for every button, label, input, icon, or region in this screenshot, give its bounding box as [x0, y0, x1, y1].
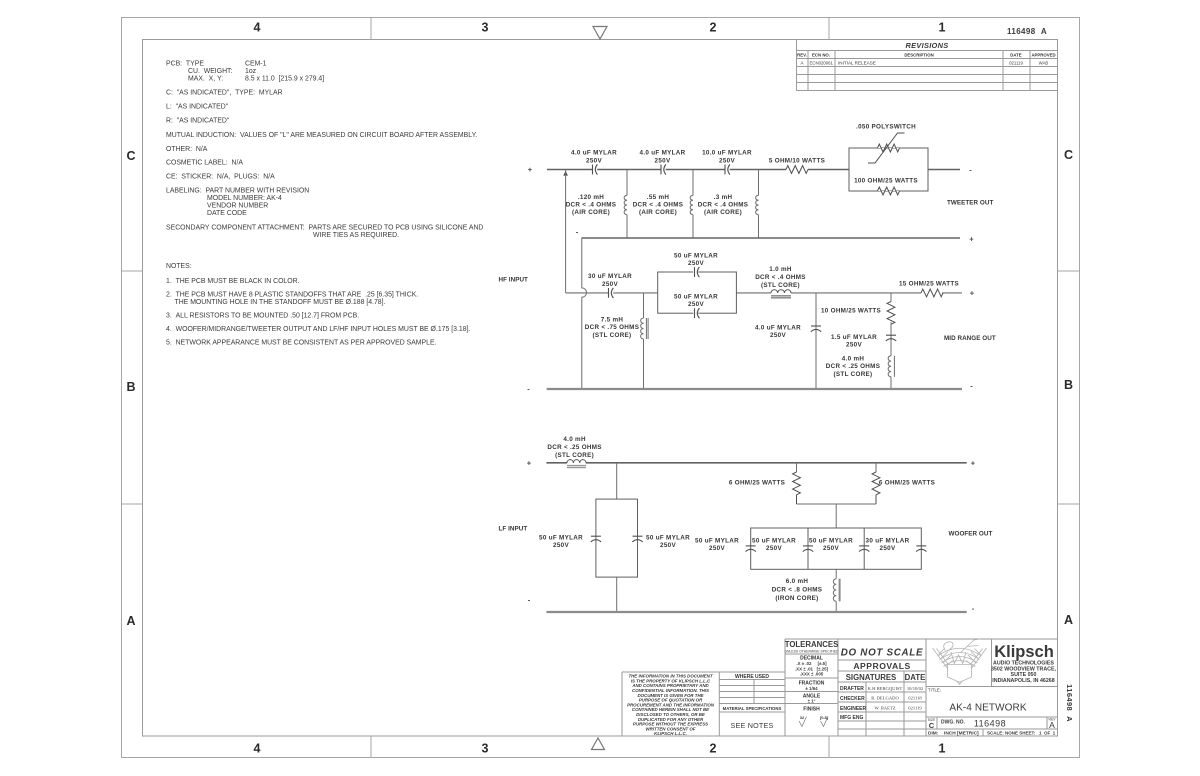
klipsch logo emblem	[933, 639, 987, 685]
svg-text:DCR < .4 OHMS: DCR < .4 OHMS	[633, 202, 684, 209]
svg-text:250V: 250V	[655, 158, 671, 165]
svg-text:6 OHM/25 WATTS: 6 OHM/25 WATTS	[729, 480, 785, 487]
svg-text:30 uF MYLAR: 30 uF MYLAR	[588, 273, 632, 280]
svg-text:6 OHM/25 WATTS: 6 OHM/25 WATTS	[879, 480, 935, 487]
svg-text:DATE CODE: DATE CODE	[207, 210, 247, 217]
svg-text:50 uF MYLAR: 50 uF MYLAR	[674, 294, 718, 301]
svg-text:INCH [METRIC]: INCH [METRIC]	[944, 731, 979, 737]
svg-text:C: "AS INDICATED", TYPE: MY: C: "AS INDICATED", TYPE: MYLAR	[166, 90, 283, 97]
svg-text:THE MOUNTING HOLE IN THE STAND: THE MOUNTING HOLE IN THE STANDOFF MUST B…	[175, 299, 386, 306]
svg-text:6.0 mH: 6.0 mH	[786, 578, 809, 585]
svg-text:.55 mH: .55 mH	[647, 194, 670, 201]
inductor 4.0 mH STL core (woofer series)	[567, 460, 586, 468]
svg-text:C: C	[1064, 148, 1073, 162]
svg-text:ENGINEER: ENGINEER	[840, 706, 867, 712]
svg-text:B: B	[1064, 378, 1073, 392]
svg-text:250V: 250V	[709, 545, 725, 552]
svg-text:DCR < .75 OHMS: DCR < .75 OHMS	[585, 324, 639, 331]
svg-text:250V: 250V	[660, 542, 676, 549]
wire resistor join bus	[797, 504, 877, 528]
node HF feed junction arrow	[563, 171, 568, 176]
wire HF return rail	[582, 237, 960, 239]
capacitor 50 uF MYLAR (LF box1 left)	[591, 536, 601, 542]
capacitor 4.0 uF MYLAR (midrange shunt)	[815, 293, 817, 389]
svg-text:5 OHM/10 WATTS: 5 OHM/10 WATTS	[769, 158, 825, 165]
svg-text:R. DELGADO: R. DELGADO	[871, 696, 899, 701]
capacitor 50 uF MYLAR (LF bank 3)	[859, 546, 869, 552]
resistor 5 OHM/10 WATTS	[786, 166, 808, 174]
svg-text:116498 A: 116498 A	[1065, 684, 1074, 722]
svg-text:4.0 uF MYLAR: 4.0 uF MYLAR	[571, 150, 617, 157]
terminal LF return - left and right	[528, 596, 975, 614]
capacitor 50 uF MYLAR (midrange bottom)	[693, 308, 699, 318]
svg-text:(AIR CORE): (AIR CORE)	[639, 209, 677, 216]
resistor 15 OHM/25 WATTS (midrange series out)	[921, 289, 943, 297]
svg-text:MFG ENG: MFG ENG	[840, 715, 863, 721]
svg-text:DCR < .8 OHMS: DCR < .8 OHMS	[772, 587, 823, 594]
svg-text:-: -	[576, 228, 579, 237]
capacitor 4.0 uF MYLAR (HF series 2)	[661, 164, 666, 174]
svg-text:OTHER: N/A: OTHER: N/A	[166, 146, 208, 153]
svg-text:DCR < .4 OHMS: DCR < .4 OHMS	[755, 274, 806, 281]
where used / material specs	[723, 674, 782, 730]
approvals	[840, 648, 925, 722]
svg-text:± 1°: ± 1°	[808, 699, 816, 704]
svg-text:DCR < .25 OHMS: DCR < .25 OHMS	[547, 444, 601, 451]
svg-text:1oz: 1oz	[245, 68, 257, 75]
svg-text:50 uF MYLAR: 50 uF MYLAR	[674, 253, 718, 260]
svg-text:WAB: WAB	[1039, 61, 1049, 66]
svg-text:.XXX ± .005: .XXX ± .005	[800, 671, 824, 676]
svg-text:30 uF MYLAR: 30 uF MYLAR	[866, 538, 910, 545]
svg-text:250V: 250V	[823, 545, 839, 552]
terminal woofer +	[949, 459, 993, 538]
svg-text:(STL CORE): (STL CORE)	[555, 452, 594, 459]
svg-text:4. WOOFER/MIDRANGE/TWEETER OU: 4. WOOFER/MIDRANGE/TWEETER OUTPUT AND LF…	[166, 326, 470, 333]
svg-text:2: 2	[710, 21, 717, 35]
label LF INPUT	[499, 526, 528, 533]
inductor 4.0 mH STL core (zobel branch)	[888, 356, 894, 389]
svg-text:32: 32	[800, 715, 805, 720]
svg-text:CHECKER: CHECKER	[840, 696, 865, 702]
svg-text:COSMETIC LABEL: N/A: COSMETIC LABEL: N/A	[166, 160, 243, 167]
svg-text:10 OHM/25 WATTS: 10 OHM/25 WATTS	[821, 308, 881, 315]
svg-text:CEM-1: CEM-1	[245, 61, 267, 68]
svg-text:WHERE USED: WHERE USED	[735, 674, 769, 680]
svg-text:.3 mH: .3 mH	[714, 194, 733, 201]
svg-text:TITLE:: TITLE:	[928, 688, 941, 693]
svg-text:50 uF MYLAR: 50 uF MYLAR	[646, 535, 690, 542]
svg-text:NOTES:: NOTES:	[166, 263, 192, 270]
svg-text:250V: 250V	[880, 545, 896, 552]
svg-text:MUTUAL INDUCTION: VALUES OF ": MUTUAL INDUCTION: VALUES OF "L" ARE MEAS…	[166, 132, 477, 139]
svg-text:250V: 250V	[719, 158, 735, 165]
svg-text:021118: 021118	[908, 696, 922, 701]
wire midrange bottom rail	[547, 388, 962, 390]
label HF INPUT	[499, 277, 529, 284]
capacitor 30 uF MYLAR (LF bank 4)	[916, 546, 926, 552]
wire LF box1 to bottom rail	[616, 577, 618, 612]
tolerances	[785, 640, 839, 720]
svg-text:250V: 250V	[553, 542, 569, 549]
svg-text:7.5 mH: 7.5 mH	[601, 316, 624, 323]
svg-text:MAX. X, Y:: MAX. X, Y:	[188, 76, 223, 83]
svg-text:250V: 250V	[688, 301, 704, 308]
svg-text:4: 4	[254, 742, 261, 756]
svg-text:250V: 250V	[688, 260, 704, 267]
svg-text:.120 mH: .120 mH	[578, 194, 604, 201]
svg-text:REVISIONS: REVISIONS	[906, 41, 949, 50]
svg-text:250V: 250V	[586, 158, 602, 165]
svg-text:INDIANAPOLIS, IN 46268: INDIANAPOLIS, IN 46268	[992, 678, 1054, 684]
inductor 1.0 mH STL core series	[771, 290, 791, 298]
svg-text:W. BAETZ: W. BAETZ	[874, 706, 895, 711]
wire midrange input rail	[566, 292, 962, 294]
svg-text:(STL CORE): (STL CORE)	[593, 332, 632, 339]
terminal midrange +	[944, 289, 996, 342]
svg-text:-: -	[528, 596, 531, 605]
wire LF bottom rail	[546, 611, 966, 613]
svg-text:116498: 116498	[974, 719, 1006, 729]
svg-text:± 1/64: ± 1/64	[805, 686, 818, 691]
polyswitch RT .050	[868, 133, 905, 163]
svg-text:(IRON CORE): (IRON CORE)	[775, 595, 818, 602]
wire HF top rail	[547, 169, 960, 171]
svg-text:R: "AS INDICATED": R: "AS INDICATED"	[166, 118, 230, 125]
svg-text:DCR < .4 OHMS: DCR < .4 OHMS	[698, 202, 749, 209]
LF capacitor box 2	[751, 528, 922, 569]
notes block	[166, 263, 470, 347]
midrange capacitor bank box	[658, 272, 737, 313]
inductor .120 mH air core shunt	[624, 170, 627, 239]
svg-text:(AIR CORE): (AIR CORE)	[704, 209, 742, 216]
svg-text:3. ALL RESISTORS TO BE MOUNTE: 3. ALL RESISTORS TO BE MOUNTED .50 [12.7…	[166, 313, 359, 320]
svg-text:K.H BERGQUIST: K.H BERGQUIST	[868, 686, 903, 691]
svg-text:3: 3	[482, 21, 489, 35]
capacitor 1.5 uF MYLAR (zobel branch)	[890, 322, 892, 356]
svg-text:100 OHM/25 WATTS: 100 OHM/25 WATTS	[854, 178, 918, 185]
svg-text:CE: STICKER: N/A, PLUGS: N: CE: STICKER: N/A, PLUGS: N/A	[166, 174, 275, 181]
svg-text:SCALE: NONE SHEET: 1 OF 1: SCALE: NONE SHEET: 1 OF 1	[987, 731, 1056, 736]
spec text block	[166, 61, 483, 240]
resistor 6 OHM/25 WATTS (right)	[875, 463, 877, 472]
svg-text:1: 1	[939, 21, 946, 35]
svg-text:DATE: DATE	[1010, 53, 1022, 58]
svg-text:50 uF MYLAR: 50 uF MYLAR	[809, 538, 853, 545]
svg-text:.050 POLYSWITCH: .050 POLYSWITCH	[856, 124, 916, 131]
svg-text:MID RANGE OUT: MID RANGE OUT	[944, 335, 996, 342]
svg-text:MODEL NUMBER: AK-4: MODEL NUMBER: AK-4	[207, 195, 282, 202]
svg-text:8.5 x 11.0 [215.9 x 279.4]: 8.5 x 11.0 [215.9 x 279.4]	[245, 76, 324, 83]
wire LF top rail	[546, 462, 966, 464]
legal text	[627, 674, 715, 737]
capacitor 4.0 uF MYLAR (HF series 1)	[593, 164, 598, 174]
svg-text:+: +	[528, 165, 533, 174]
svg-text:+: +	[971, 459, 976, 468]
terminal LF input +	[527, 459, 532, 468]
svg-text:DESCRIPTION: DESCRIPTION	[904, 53, 933, 58]
svg-text:L: "AS INDICATED": L: "AS INDICATED"	[166, 104, 229, 111]
LF capacitor box 1	[596, 499, 638, 577]
svg-text:DATE: DATE	[905, 673, 926, 682]
svg-text:4.0 mH: 4.0 mH	[563, 436, 586, 443]
svg-text:1.0 mH: 1.0 mH	[769, 266, 792, 273]
svg-text:021119: 021119	[1009, 61, 1023, 66]
svg-text:DWG. NO.: DWG. NO.	[941, 720, 965, 726]
svg-text:REV.: REV.	[797, 53, 807, 58]
svg-text:1: 1	[939, 742, 946, 756]
wire LF box1 feed	[616, 463, 618, 499]
svg-text:-: -	[970, 382, 973, 391]
klipsch text	[991, 643, 1057, 684]
svg-text:(STL CORE): (STL CORE)	[761, 282, 800, 289]
svg-text:HF INPUT: HF INPUT	[499, 277, 529, 284]
svg-text:Klipsch: Klipsch	[994, 643, 1054, 661]
svg-text:021119: 021119	[908, 706, 922, 711]
inductor 6.0 mH iron core (LF shunt)	[833, 569, 839, 612]
terminal HF return - and +	[576, 228, 975, 244]
svg-text:A: A	[126, 614, 135, 628]
terminal tweeter -	[947, 166, 993, 207]
svg-text:WIRE TIES AS REQUIRED.: WIRE TIES AS REQUIRED.	[313, 232, 399, 239]
title / dwg no	[928, 688, 1056, 737]
svg-text:3: 3	[482, 742, 489, 756]
svg-text:AK-4 NETWORK: AK-4 NETWORK	[949, 703, 1027, 714]
svg-text:FINISH: FINISH	[803, 707, 820, 713]
svg-text:+: +	[527, 459, 532, 468]
svg-text:-: -	[969, 166, 972, 175]
svg-text:(STL CORE): (STL CORE)	[834, 371, 873, 378]
svg-text:PCB: TYPE: PCB: TYPE	[166, 61, 204, 68]
wire HF return drop with hop	[582, 238, 587, 390]
svg-text:-: -	[972, 604, 975, 613]
svg-text:C: C	[929, 721, 935, 730]
svg-text:4: 4	[254, 21, 261, 35]
capacitor 10.0 uF MYLAR (HF series 3)	[725, 164, 730, 174]
svg-text:4.0 uF MYLAR: 4.0 uF MYLAR	[755, 325, 801, 332]
capacitor 50 uF MYLAR (LF bank 1)	[746, 546, 756, 552]
svg-text:TOLERANCES: TOLERANCES	[785, 640, 839, 649]
terminal HF input +	[528, 165, 533, 174]
resistor 10 OHM/25 WATTS (zobel branch)	[890, 293, 892, 302]
svg-text:DO NOT SCALE: DO NOT SCALE	[841, 648, 923, 659]
svg-text:ECN020061: ECN020061	[810, 61, 834, 66]
svg-text:1.5 uF MYLAR: 1.5 uF MYLAR	[831, 334, 877, 341]
svg-text:10/10/02: 10/10/02	[907, 686, 924, 691]
svg-text:A: A	[1049, 720, 1055, 730]
svg-text:50 uF MYLAR: 50 uF MYLAR	[539, 535, 583, 542]
svg-text:+: +	[970, 289, 975, 298]
svg-text:116498 A: 116498 A	[1007, 27, 1047, 36]
svg-text:DRAFTER: DRAFTER	[840, 686, 864, 692]
capacitor 50 uF MYLAR (LF box1 right)	[632, 536, 642, 542]
svg-text:DCR < .4 OHMS: DCR < .4 OHMS	[566, 202, 617, 209]
svg-text:CU. WEIGHT:: CU. WEIGHT:	[188, 68, 232, 75]
svg-text:(AIR CORE): (AIR CORE)	[572, 209, 610, 216]
svg-text:TWEETER OUT: TWEETER OUT	[947, 200, 993, 207]
svg-text:50 uF MYLAR: 50 uF MYLAR	[752, 538, 796, 545]
svg-text:50 uF MYLAR: 50 uF MYLAR	[695, 538, 739, 545]
svg-text:B: B	[126, 380, 135, 394]
svg-text:250V: 250V	[846, 342, 862, 349]
svg-text:250V: 250V	[766, 545, 782, 552]
svg-text:2. THE PCB MUST HAVE 8 PLASTI: 2. THE PCB MUST HAVE 8 PLASTIC STANDOFFS…	[166, 292, 418, 299]
svg-text:4.0 uF MYLAR: 4.0 uF MYLAR	[640, 150, 686, 157]
inductor .55 mH air core shunt	[690, 170, 693, 239]
svg-text:DCR < .25 OHMS: DCR < .25 OHMS	[826, 363, 880, 370]
resistor 6 OHM/25 WATTS (left)	[796, 463, 798, 472]
svg-text:C: C	[126, 149, 135, 163]
svg-text:15 OHM/25 WATTS: 15 OHM/25 WATTS	[899, 281, 959, 288]
svg-text:5. NETWORK APPEARANCE MUST BE: 5. NETWORK APPEARANCE MUST BE CONSISTENT…	[166, 340, 437, 347]
resistor 100 OHM/25 WATTS	[878, 187, 900, 195]
inductor .3 mH air core shunt	[756, 170, 759, 239]
svg-text:SECONDARY COMPONENT ATTACHMENT: SECONDARY COMPONENT ATTACHMENT: PARTS AR…	[166, 225, 483, 232]
svg-text:VENDOR NUMBER: VENDOR NUMBER	[207, 203, 268, 210]
capacitor 50 uF MYLAR (midrange top)	[693, 267, 699, 277]
svg-text:250V: 250V	[602, 281, 618, 288]
svg-text:250V: 250V	[770, 332, 786, 339]
svg-text:LF INPUT: LF INPUT	[499, 526, 528, 533]
svg-text:APPROVED: APPROVED	[1031, 53, 1055, 58]
svg-text:DIM:: DIM:	[928, 731, 939, 737]
revisions table	[797, 40, 1058, 91]
svg-text:ECN NO.: ECN NO.	[812, 53, 830, 58]
wire HF input drop to midrange	[565, 170, 567, 293]
terminal midrange return - left and right	[527, 382, 973, 394]
svg-text:10.0 uF MYLAR: 10.0 uF MYLAR	[702, 150, 752, 157]
svg-text:1. THE PCB MUST BE BLACK IN C: 1. THE PCB MUST BE BLACK IN COLOR.	[166, 278, 300, 285]
svg-text:SIGNATURES: SIGNATURES	[846, 673, 897, 682]
capacitor 50 uF MYLAR (LF bank 2)	[803, 546, 813, 552]
inductor 7.5 mH STL core shunt	[641, 293, 648, 389]
svg-text:A: A	[1064, 613, 1073, 627]
svg-text:LABELING: PART NUMBER WITH RE: LABELING: PART NUMBER WITH REVISION	[166, 188, 309, 195]
svg-text:INITIAL RELEASE: INITIAL RELEASE	[838, 61, 876, 66]
svg-text:UNLESS OTHERWISE SPECIFIED: UNLESS OTHERWISE SPECIFIED	[785, 649, 839, 653]
polyswitch .050 with 100 OHM/25 WATTS box	[849, 148, 928, 191]
svg-text:4.0 mH: 4.0 mH	[842, 355, 865, 362]
svg-text:WOOFER OUT: WOOFER OUT	[949, 531, 993, 538]
svg-text:2: 2	[710, 742, 717, 756]
svg-text:A: A	[800, 61, 804, 66]
capacitor 30 uF MYLAR (midrange series)	[609, 288, 614, 298]
svg-text:APPROVALS: APPROVALS	[853, 661, 910, 671]
svg-text:MATERIAL SPECIFICATIONS: MATERIAL SPECIFICATIONS	[723, 706, 782, 711]
svg-text:-: -	[527, 385, 530, 394]
svg-text:SEE NOTES: SEE NOTES	[731, 721, 774, 730]
svg-text:+: +	[969, 235, 974, 244]
svg-text:KLIPSCH L.L.C.: KLIPSCH L.L.C.	[654, 731, 687, 736]
